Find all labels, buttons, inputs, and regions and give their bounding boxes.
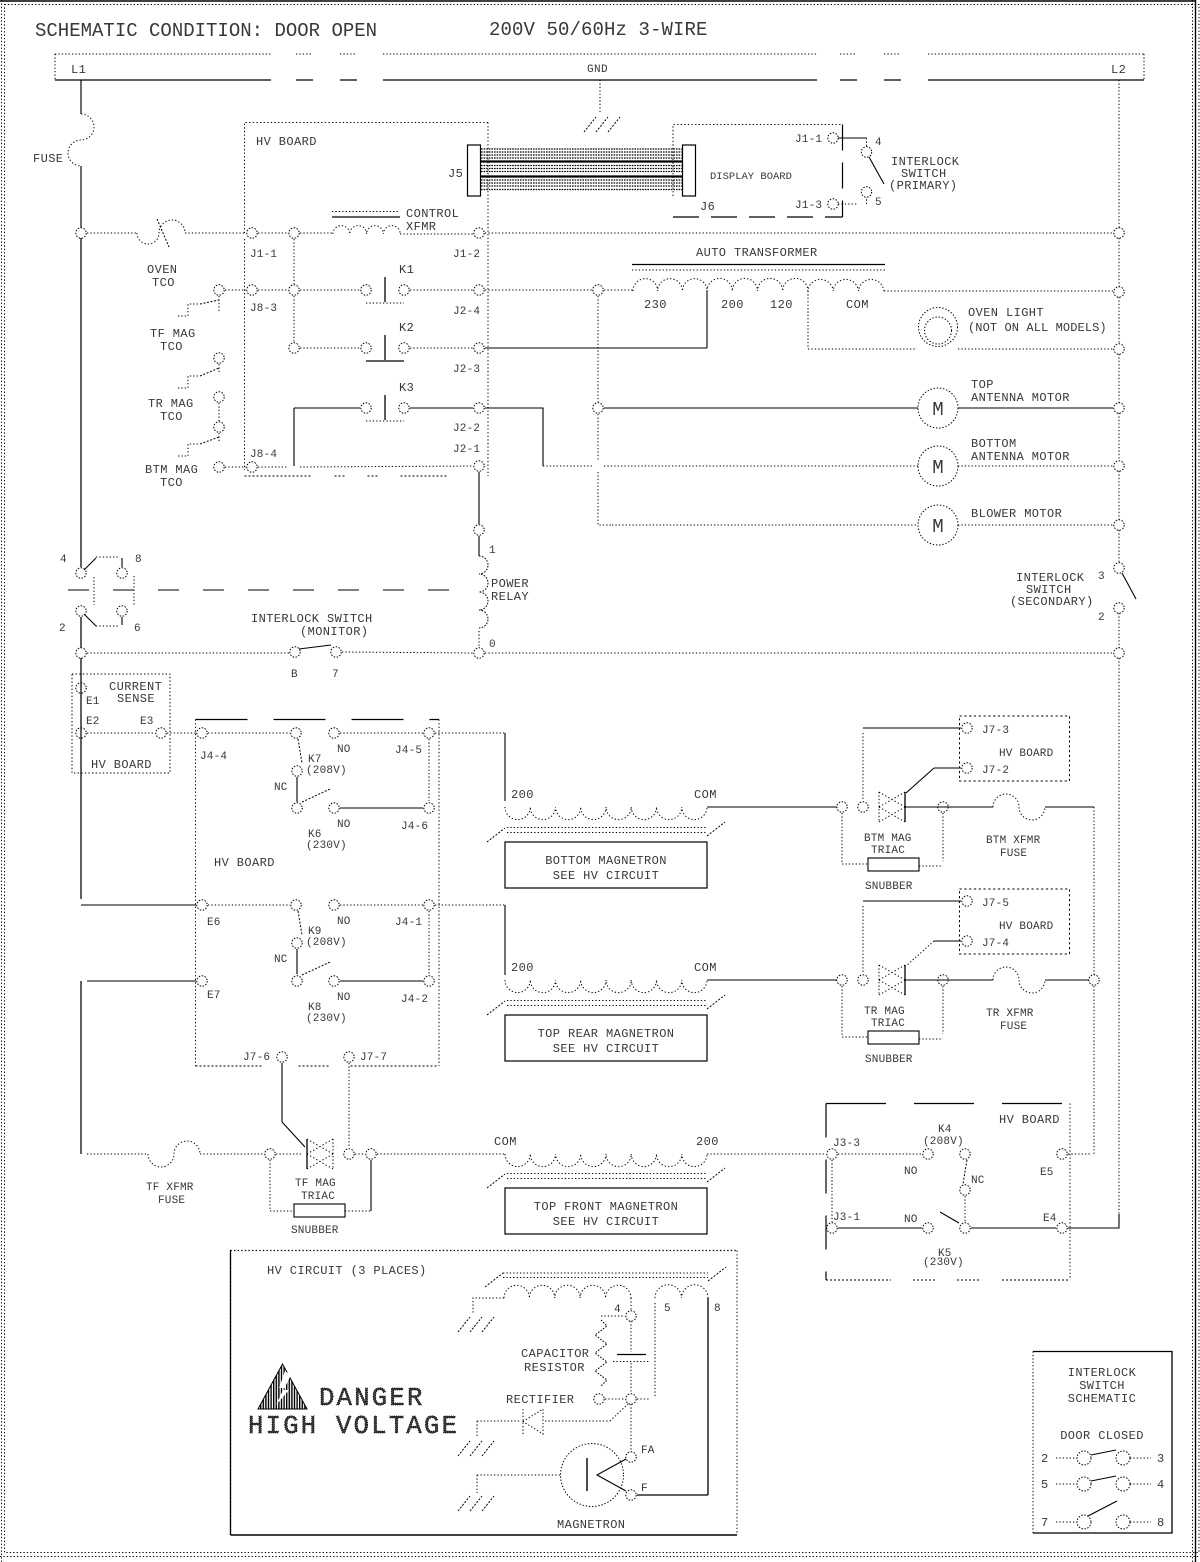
relay K5 common [960, 1223, 970, 1233]
terminal FA [626, 1452, 636, 1462]
node snubber left BTM [837, 802, 847, 812]
wire L2 [1118, 413, 1120, 461]
svg-text:4: 4 [60, 554, 67, 566]
svg-text:(208V): (208V) [306, 937, 347, 949]
fuse BTM XFMR FUSE [993, 794, 1045, 820]
svg-text:NC: NC [274, 782, 288, 794]
wire L2 [1118, 297, 1120, 344]
display board box [673, 125, 843, 197]
node K-branch top [289, 228, 299, 238]
svg-text:FUSE: FUSE [1000, 848, 1027, 860]
terminal J7-3 [962, 723, 972, 733]
svg-text:BTM MAG: BTM MAG [145, 463, 198, 477]
terminal J3-3 [827, 1149, 837, 1159]
svg-text:J4-4: J4-4 [200, 751, 227, 763]
svg-text:SEE HV CIRCUIT: SEE HV CIRCUIT [553, 1215, 659, 1229]
svg-text:BOTTOM MAGNETRON: BOTTOM MAGNETRON [545, 854, 667, 868]
wire E3 to J4-4 [167, 732, 196, 734]
svg-text:COM: COM [494, 1135, 517, 1149]
node pin 4 [626, 1311, 636, 1321]
relay K9 common [291, 900, 301, 910]
wire fuse out [1045, 806, 1094, 808]
svg-text:E7: E7 [207, 990, 221, 1002]
wire J7-2 gate diagonal [906, 768, 934, 793]
node snubber left TR [837, 975, 847, 985]
svg-text:J4-2: J4-2 [401, 994, 428, 1006]
svg-text:FUSE: FUSE [158, 1195, 185, 1207]
wire branch vertical [293, 239, 295, 284]
node L2/relay row [1114, 648, 1124, 658]
node L2/J1-2 [1114, 228, 1124, 238]
node top antenna branch [593, 403, 603, 413]
fuse TR XFMR FUSE [993, 967, 1045, 993]
wire tco to J1-1 [185, 232, 246, 234]
wire J7-3 [863, 727, 961, 729]
terminal J2-2 [474, 403, 484, 413]
svg-text:BOTTOM: BOTTOM [971, 437, 1017, 451]
svg-text:TR XFMR: TR XFMR [986, 1008, 1034, 1020]
svg-text:POWER: POWER [491, 577, 529, 591]
ground GND [584, 117, 596, 132]
wire J7-6 gate [281, 1063, 283, 1122]
terminal J1-1 display [828, 133, 838, 143]
current sense box [72, 674, 170, 773]
svg-text:J7-4: J7-4 [982, 938, 1009, 950]
contact 4 monitor [76, 568, 86, 578]
coil POWER RELAY [479, 556, 488, 628]
wire L1 down to TF row [80, 981, 82, 1154]
coil filament winding [655, 1285, 708, 1298]
wire [342, 652, 473, 653]
terminal J7-7 [344, 1052, 354, 1062]
terminal J3-1 [827, 1223, 837, 1233]
svg-text:TCO: TCO [160, 340, 183, 354]
wire oven light to L2 [958, 348, 1113, 350]
box BOTTOM MAGNETRON [505, 842, 707, 888]
wire J7-4 gate diagonal [906, 941, 934, 966]
terminal J4-2 [424, 976, 434, 986]
wire to auto transformer [604, 289, 633, 291]
svg-text:ANTENNA MOTOR: ANTENNA MOTOR [971, 450, 1070, 464]
terminal E3 [156, 728, 166, 738]
node tco top [214, 285, 224, 295]
contact K7 NO [329, 728, 339, 738]
core HV secondary [503, 1272, 708, 1274]
terminal J8-3 [247, 285, 257, 295]
wire top antenna to L2 [958, 407, 1113, 409]
wire J2-1 to power relay [478, 472, 480, 524]
wire J8-4 to J2-1 [300, 466, 473, 467]
contact K4 NC [960, 1185, 970, 1195]
box TOP REAR MAGNETRON [505, 1015, 707, 1061]
node tco bottom [214, 462, 224, 472]
transformer CONTROL XFMR [333, 226, 400, 234]
svg-text:FA: FA [641, 1445, 655, 1457]
wire tap 200 down [706, 291, 708, 348]
svg-text:2: 2 [1041, 1452, 1048, 1466]
interlock switch primary [838, 137, 867, 139]
terminal J7-2 [962, 763, 972, 773]
terminal J7-4 [962, 936, 972, 946]
svg-text:J1-1: J1-1 [795, 134, 822, 146]
terminal E5 [1057, 1149, 1067, 1159]
capacitor [630, 1321, 632, 1352]
node capacitor bottom [626, 1394, 636, 1404]
svg-text:J4-6: J4-6 [401, 821, 428, 833]
wire J4-1 to xfmr [435, 904, 505, 906]
wire L2 [1118, 530, 1120, 563]
terminal J4-6 [424, 803, 434, 813]
lamp OVEN LIGHT [919, 308, 958, 347]
svg-text:SCHEMATIC: SCHEMATIC [1068, 1392, 1136, 1406]
svg-text:INTERLOCK SWITCH: INTERLOCK SWITCH [251, 612, 373, 626]
wire K5 to E4 [971, 1227, 1056, 1229]
svg-text:2: 2 [1098, 612, 1105, 624]
svg-text:F: F [641, 1483, 648, 1495]
contact 5 primary [861, 187, 871, 197]
svg-text:4: 4 [614, 1304, 621, 1316]
svg-text:120: 120 [770, 298, 793, 312]
wire diode cathode [545, 1420, 610, 1422]
wire down to TR xfmr [504, 905, 506, 975]
svg-text:INTERLOCK: INTERLOCK [1068, 1366, 1137, 1380]
wire to resistor [601, 1315, 625, 1317]
svg-text:CAPACITOR: CAPACITOR [521, 1347, 589, 1361]
svg-text:XFMR: XFMR [406, 220, 436, 234]
svg-text:OVEN: OVEN [147, 263, 177, 277]
node motor branch top [593, 285, 603, 295]
svg-text:NO: NO [337, 819, 351, 831]
svg-text:NO: NO [337, 916, 351, 928]
node snubber right TR [938, 975, 948, 985]
interlock switch schematic box [1033, 1352, 1172, 1534]
node tco [214, 422, 224, 432]
wire [258, 289, 288, 291]
wire resistor to cap node [605, 1398, 625, 1400]
node resistor bottom [594, 1394, 604, 1404]
wire [200, 1153, 264, 1155]
relay K8 common [292, 976, 302, 986]
svg-text:L2: L2 [1111, 63, 1126, 77]
svg-text:(230V): (230V) [306, 1013, 347, 1025]
node L2/top antenna [1114, 403, 1124, 413]
svg-text:J2-1: J2-1 [453, 444, 480, 456]
diode RECTIFIER [522, 1409, 524, 1434]
svg-text:NO: NO [337, 992, 351, 1004]
fuse FUSE [68, 114, 94, 166]
wire to K1 [300, 289, 360, 291]
wire L2 [1118, 238, 1120, 287]
wire to J1-2 [400, 233, 473, 235]
svg-text:J7-6: J7-6 [243, 1052, 270, 1064]
wire J3-3 to K4 NO [838, 1153, 922, 1155]
svg-text:RELAY: RELAY [491, 590, 529, 604]
svg-text:HIGH VOLTAGE: HIGH VOLTAGE [248, 1412, 459, 1441]
wire K1 to J2-4 [410, 289, 473, 291]
wire K8 NO to J4-2 [340, 980, 423, 982]
wire J7-4 [934, 940, 961, 942]
svg-text:COM: COM [694, 961, 717, 975]
svg-text:TR MAG: TR MAG [148, 397, 194, 411]
contact K5 NO [923, 1223, 933, 1233]
node L1/J1-1 junction [76, 228, 86, 238]
wire pin4 [630, 1298, 632, 1311]
svg-text:TRIAC: TRIAC [301, 1191, 335, 1203]
svg-text:(NOT ON ALL MODELS): (NOT ON ALL MODELS) [968, 321, 1107, 335]
terminal E2 [76, 728, 86, 738]
box TOP FRONT MAGNETRON [505, 1188, 707, 1234]
svg-text:(208V): (208V) [923, 1136, 964, 1148]
wire F to pin 8 [637, 1494, 708, 1496]
wire bottom antenna to L2 [958, 465, 1113, 467]
node L1/relay contact row [76, 648, 86, 658]
wire E7 to L1 [87, 980, 196, 982]
svg-text:SNUBBER: SNUBBER [865, 1054, 913, 1066]
connector J5 [468, 145, 481, 196]
snubber TF [269, 1160, 271, 1211]
wire blower [612, 524, 918, 526]
svg-text:TRIAC: TRIAC [871, 845, 905, 857]
coil top front xfmr primary [505, 1154, 707, 1167]
power bus L1/GND/L2 [55, 53, 271, 55]
svg-text:TOP REAR MAGNETRON: TOP REAR MAGNETRON [538, 1027, 675, 1041]
terminal J4-1 [424, 900, 434, 910]
contact K9 NO [329, 900, 339, 910]
wire oven light [808, 348, 917, 350]
svg-text:RECTIFIER: RECTIFIER [506, 1393, 574, 1407]
node gate drop BTM [858, 802, 868, 812]
wire 200 to J3-3 [707, 1153, 826, 1155]
wire K2 to J2-3 [410, 347, 473, 349]
wire J4-5 to xfmr [435, 732, 505, 734]
wire branch vertical [293, 296, 295, 342]
terminal J1-2 [474, 228, 484, 238]
terminal J4-5 [424, 728, 434, 738]
wire bottom antenna [604, 465, 918, 467]
motor TOP ANTENNA MOTOR [918, 388, 958, 428]
contact 6 monitor [117, 606, 127, 616]
relay K7 common [291, 728, 301, 738]
svg-text:NO: NO [904, 1166, 918, 1178]
svg-text:TF XFMR: TF XFMR [146, 1182, 194, 1194]
wire TF to top front xfmr [377, 1153, 505, 1155]
contact K6 NO [329, 803, 339, 813]
svg-text:HV BOARD: HV BOARD [214, 856, 275, 870]
svg-text:CONTROL: CONTROL [406, 207, 459, 221]
wire L2 [1118, 471, 1120, 520]
svg-text:COM: COM [694, 788, 717, 802]
svg-text:7: 7 [332, 669, 339, 681]
svg-text:NO: NO [904, 1214, 918, 1226]
svg-text:E1: E1 [86, 696, 100, 708]
gate blade TF triac [282, 1122, 305, 1147]
svg-text:SWITCH: SWITCH [1079, 1379, 1125, 1393]
wire L1 drop [80, 80, 82, 114]
wire J3-1 to K5 NO [838, 1227, 922, 1229]
node tco [214, 353, 224, 363]
wire magnetron cathode [477, 1474, 560, 1476]
snubber BTM [841, 813, 843, 864]
svg-text:J4-5: J4-5 [395, 745, 422, 757]
terminal J4-4 [197, 728, 207, 738]
motor BLOWER MOTOR [918, 505, 958, 545]
linkage monitor [133, 576, 135, 606]
svg-text:TCO: TCO [160, 410, 183, 424]
wire fuse out TR [1045, 979, 1089, 981]
wire diode anode [477, 1420, 521, 1422]
svg-text:J7-7: J7-7 [360, 1052, 387, 1064]
svg-text:4: 4 [1157, 1478, 1164, 1492]
terminal J8-4 [247, 462, 257, 472]
terminal E6 [197, 900, 207, 910]
svg-text:J3-3: J3-3 [833, 1138, 860, 1150]
svg-text:J1-2: J1-2 [453, 249, 480, 261]
svg-text:TF MAG: TF MAG [295, 1178, 336, 1190]
node K2 branch [289, 343, 299, 353]
coil TR xfmr primary [505, 980, 707, 993]
wire BTM to triac [707, 806, 837, 808]
svg-text:K2: K2 [399, 321, 414, 335]
node snubber right BTM [938, 802, 948, 812]
terminal J1-1 [247, 228, 257, 238]
contact 8 monitor [117, 568, 127, 578]
coil BTM xfmr primary [505, 807, 707, 820]
relay contact K1 [361, 285, 371, 295]
svg-text:5: 5 [875, 197, 882, 209]
resistor zigzag [595, 1320, 607, 1386]
wire L2 drop [1118, 80, 1120, 228]
wire GND drop [599, 80, 601, 114]
wire to oven tco [87, 232, 137, 234]
svg-text:K1: K1 [399, 263, 414, 277]
svg-text:SNUBBER: SNUBBER [865, 881, 913, 893]
relay contact K3 [361, 403, 371, 413]
contact K8 NO [329, 976, 339, 986]
wire J3-3 to J3-1 [831, 1160, 833, 1222]
svg-text:SNUBBER: SNUBBER [291, 1225, 339, 1237]
svg-text:HV BOARD: HV BOARD [999, 748, 1054, 760]
node L2/oven light [1114, 344, 1124, 354]
svg-text:GND: GND [587, 64, 608, 76]
wire [300, 232, 333, 234]
svg-text:HV BOARD: HV BOARD [256, 135, 317, 149]
terminal E4 [1057, 1223, 1067, 1233]
thermal cutout TR MAG TCO [178, 376, 200, 388]
wire K3 left [294, 407, 360, 409]
wire TR to triac [707, 979, 837, 981]
svg-text:4: 4 [875, 137, 882, 149]
svg-text:DOOR CLOSED: DOOR CLOSED [1060, 1429, 1144, 1443]
svg-text:SCHEMATIC CONDITION: DOOR OPEN: SCHEMATIC CONDITION: DOOR OPEN [35, 20, 377, 42]
svg-text:8: 8 [135, 554, 142, 566]
linkage dashed door line [68, 589, 450, 591]
wire L2 [1118, 354, 1120, 403]
svg-text:3: 3 [1098, 571, 1105, 583]
coil HV secondary [504, 1285, 631, 1298]
svg-text:DANGER: DANGER [319, 1384, 425, 1413]
terminal J2-3 [474, 343, 484, 353]
svg-text:M: M [932, 399, 943, 421]
wire top antenna [604, 407, 918, 409]
wire J4-4 to K7 [208, 732, 290, 734]
wire K3 to J8-4 row [293, 408, 295, 466]
wire pin 8 down [707, 1298, 709, 1495]
node relay to contact row [474, 648, 484, 658]
node gate drop TR [858, 975, 868, 985]
wire tco to J8-4 [225, 466, 246, 468]
ground magnetron [458, 1496, 470, 1511]
wire motor branch [597, 296, 599, 402]
node L2/blower [1114, 520, 1124, 530]
svg-text:(208V): (208V) [306, 765, 347, 777]
svg-text:K3: K3 [399, 381, 414, 395]
svg-text:HV BOARD: HV BOARD [91, 758, 152, 772]
node L2/bottom antenna [1114, 461, 1124, 471]
contact K4 NO [923, 1149, 933, 1159]
wire [1118, 613, 1120, 648]
terminal J2-4 [474, 285, 484, 295]
contact K9 NC [292, 938, 302, 948]
coil auto transformer [633, 278, 884, 291]
contact 3 secondary [1114, 563, 1124, 573]
wire J4-1 to J4-2 [428, 911, 430, 974]
terminal J2-1 [474, 461, 484, 471]
thermal cutout TF MAG TCO [178, 304, 200, 316]
ground rectifier [458, 1441, 470, 1456]
thermal cutout BTM MAG TCO [178, 444, 200, 456]
HV board box J7-3/J7-2 [960, 716, 1070, 781]
svg-text:TF MAG: TF MAG [150, 327, 196, 341]
svg-text:OVEN LIGHT: OVEN LIGHT [968, 306, 1044, 320]
wire relay contact row [87, 652, 289, 654]
svg-text:8: 8 [1157, 1516, 1164, 1530]
wire J1-2 to L2 line [485, 232, 1113, 234]
wire triac to fuse [905, 806, 993, 808]
triac BTM MAG TRIAC [878, 792, 880, 822]
terminal power relay 1 [474, 525, 484, 535]
triac TF MAG TRIAC [332, 1139, 334, 1169]
motor BOTTOM ANTENNA MOTOR [918, 446, 958, 486]
svg-text:J7-2: J7-2 [982, 765, 1009, 777]
wire J7-3 drop [862, 733, 864, 801]
svg-text:200: 200 [511, 788, 534, 802]
svg-text:J2-4: J2-4 [453, 306, 480, 318]
svg-text:200: 200 [721, 298, 744, 312]
svg-text:(230V): (230V) [306, 840, 347, 852]
svg-text:J8-3: J8-3 [250, 303, 277, 315]
wire J2-3 to xfmr tap [485, 347, 707, 349]
wire to blower [598, 472, 612, 525]
node snubber right TF [366, 1149, 376, 1159]
snubber TR [841, 986, 843, 1037]
svg-text:AUTO TRANSFORMER: AUTO TRANSFORMER [696, 246, 818, 260]
terminal F [626, 1490, 636, 1500]
svg-text:SEE HV CIRCUIT: SEE HV CIRCUIT [553, 869, 659, 883]
svg-text:200: 200 [696, 1135, 719, 1149]
svg-text:3: 3 [1157, 1452, 1164, 1466]
svg-text:J2-2: J2-2 [453, 423, 480, 435]
svg-text:(MONITOR): (MONITOR) [300, 625, 368, 639]
contact 2 monitor [76, 606, 86, 616]
node tco [214, 392, 224, 402]
svg-text:E3: E3 [140, 716, 154, 728]
core TOP FRONT magnetron [507, 1173, 707, 1175]
svg-text:TCO: TCO [160, 476, 183, 490]
svg-text:L1: L1 [71, 63, 86, 77]
svg-text:J6: J6 [700, 200, 715, 214]
svg-text:SEE HV CIRCUIT: SEE HV CIRCUIT [553, 1042, 659, 1056]
HV board box 1 [245, 123, 489, 471]
